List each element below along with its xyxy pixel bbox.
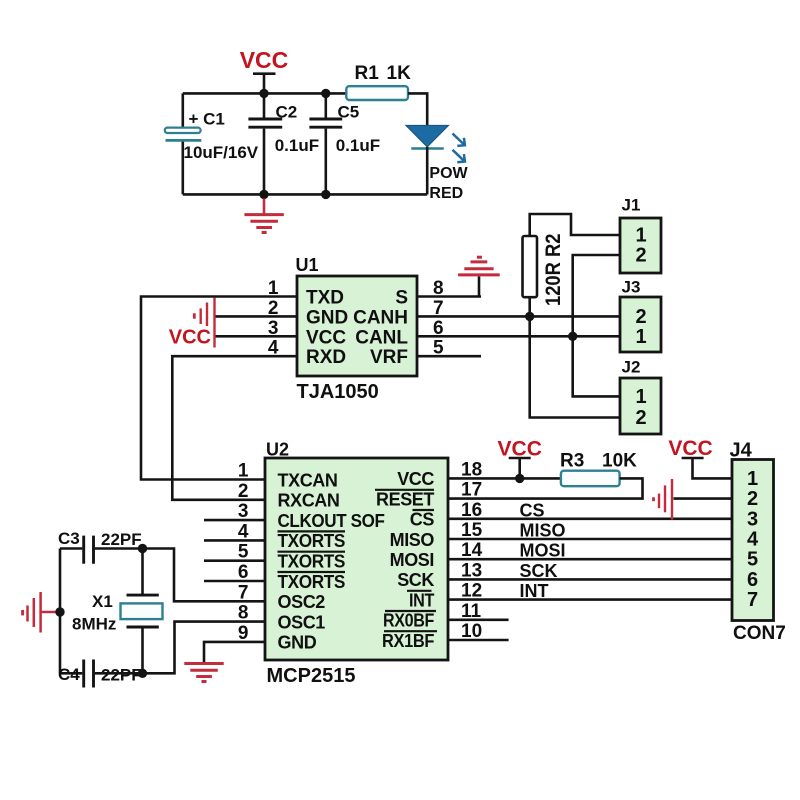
node junction CANH / R2 (525, 312, 534, 321)
wire top rail VCC (183, 92, 346, 95)
svg-text:GND: GND (278, 633, 317, 653)
svg-text:1K: 1K (387, 63, 412, 84)
svg-text:R1: R1 (355, 63, 380, 84)
wire MISO net U2 pin15 to J4 pin4 (448, 538, 732, 541)
capacitor C1 bottom plate (166, 139, 202, 142)
svg-text:CANH: CANH (353, 307, 408, 328)
power VCC top symbol (240, 47, 289, 93)
svg-text:VCC: VCC (306, 327, 346, 348)
resistor R3 (560, 451, 637, 487)
node junction bottom rail / C5 (321, 190, 330, 199)
resistor R2 (523, 236, 538, 297)
capacitor C1 top plate (165, 128, 201, 133)
svg-text:1: 1 (635, 386, 646, 408)
svg-text:MCP2515: MCP2515 (267, 665, 356, 687)
U2 pin names left (278, 470, 385, 652)
connector J4 CON7 (732, 460, 774, 621)
svg-text:C2: C2 (276, 103, 298, 122)
svg-text:0.1uF: 0.1uF (336, 136, 380, 155)
wire U2 pin4 stub (204, 539, 265, 542)
wire C4 right plate to OSC1 vertical (95, 622, 265, 674)
node junction bottom rail / C2 gnd (259, 190, 268, 199)
svg-text:CS: CS (410, 510, 435, 530)
svg-text:3: 3 (238, 501, 249, 522)
svg-text:VRF: VRF (370, 347, 408, 368)
wire left rail (C1 branch lower) (182, 140, 185, 194)
LED arrow 2 (453, 150, 465, 162)
wire U1 pin8 S to ground (417, 277, 481, 297)
wire C3 node top: rail to C3 left plate (60, 547, 82, 550)
svg-text:RXD: RXD (306, 347, 346, 368)
LED D1 cathode bar (411, 147, 444, 150)
U2 pin numbers left (238, 461, 249, 644)
svg-text:22PF: 22PF (101, 530, 142, 549)
wire R3 to U2 pin17 RESET (448, 478, 643, 498)
svg-text:INT: INT (520, 581, 549, 601)
svg-text:MISO: MISO (390, 530, 435, 550)
svg-text:+ C1: + C1 (189, 110, 225, 129)
resistor R1 (346, 63, 411, 100)
LED arrow 1 (453, 134, 465, 146)
svg-text:CANL: CANL (355, 327, 408, 348)
wire U1 pin2 GND (215, 315, 297, 318)
wire U2 pin11 stub (448, 618, 509, 621)
chip U2 box MCP2515 (265, 458, 448, 660)
wire U1 pin1 TXD to U2 pin1 (141, 297, 297, 480)
wire INT net U2 pin12 to J4 pin7 (448, 598, 732, 601)
wire U1 pin5 VRF stub (417, 355, 481, 358)
svg-text:TXORTS: TXORTS (278, 552, 346, 572)
wire U1 pin4 RXD to U2 pin2 (172, 356, 297, 500)
wire bottom rail GND (183, 193, 427, 196)
wire U2 pin6 stub (204, 580, 265, 583)
svg-text:1: 1 (635, 326, 646, 348)
wire CANH net U1 pin7 to J3 pin2 (417, 315, 620, 318)
node junction pin18 / VCC (515, 474, 524, 483)
svg-text:10uF/16V: 10uF/16V (184, 143, 259, 162)
svg-text:TJA1050: TJA1050 (297, 381, 379, 403)
wire left rail (C1 branch upper) (182, 93, 185, 127)
svg-text:VCC: VCC (668, 437, 712, 460)
wire U2 pin5 stub (204, 559, 265, 562)
wire crystal top lead (141, 549, 144, 596)
svg-text:120R R2: 120R R2 (541, 233, 565, 306)
wire C3 right plate to OSC2 vertical (95, 549, 265, 602)
wire CS net U2 pin16 to J4 pin3 (448, 517, 732, 520)
wire R2 top to J1 pin1 (530, 214, 620, 236)
svg-text:4: 4 (238, 521, 249, 542)
svg-text:C3: C3 (58, 529, 80, 548)
svg-text:MOSI: MOSI (390, 550, 434, 570)
svg-text:7: 7 (433, 298, 444, 319)
svg-text:2: 2 (238, 481, 249, 502)
wire left rail crystal (59, 549, 62, 674)
svg-text:RED: RED (429, 185, 463, 202)
U1 pin names left (306, 288, 348, 369)
node junction C3 / crystal top (138, 544, 147, 553)
svg-text:SCK: SCK (397, 570, 434, 590)
wire J1 pin2 down through CANL to J2 pin1 (573, 255, 620, 396)
svg-text:5: 5 (433, 338, 444, 359)
svg-text:5: 5 (238, 542, 249, 563)
svg-text:C5: C5 (338, 103, 360, 122)
connector J3 (620, 297, 661, 352)
connector J2 (620, 378, 661, 434)
svg-text:6: 6 (433, 318, 444, 339)
ground sideways symbol at crystal rail (23, 592, 58, 633)
svg-text:MISO: MISO (520, 521, 566, 541)
svg-text:4: 4 (747, 529, 759, 551)
svg-text:3: 3 (268, 318, 279, 339)
wire U2 pin18 VCC to R3 (448, 477, 561, 480)
svg-text:TXORTS: TXORTS (278, 531, 346, 551)
wire R2 bottom through CANH down to J2 pin2 (530, 297, 620, 417)
U1 pin numbers right (433, 278, 444, 359)
svg-text:8: 8 (433, 278, 444, 299)
wire MOSI net U2 pin14 to J4 pin5 (448, 558, 732, 561)
node junction C4 / crystal bottom (138, 669, 147, 678)
wire LED to bottom rail (426, 147, 429, 195)
svg-text:VCC: VCC (169, 327, 211, 349)
net labels SPI (520, 500, 566, 601)
svg-text:2: 2 (747, 488, 758, 510)
svg-text:1: 1 (238, 461, 249, 482)
J4 pin numbers (747, 468, 759, 611)
U2 pin numbers right (461, 459, 483, 642)
svg-text:2: 2 (635, 245, 646, 267)
svg-text:TXORTS: TXORTS (278, 572, 346, 592)
ground below filter bank (244, 199, 283, 233)
node junction top rail / C2 (259, 89, 268, 98)
crystal X1 top plate (127, 594, 159, 597)
svg-text:1: 1 (747, 468, 758, 490)
svg-text:POW: POW (429, 165, 468, 182)
ground at U2 pin9 (184, 664, 223, 682)
svg-text:0.1uF: 0.1uF (275, 136, 319, 155)
svg-text:4: 4 (268, 338, 279, 359)
svg-text:2: 2 (268, 298, 279, 319)
svg-text:S: S (395, 288, 408, 309)
svg-text:1: 1 (635, 225, 646, 247)
svg-text:5: 5 (747, 549, 758, 571)
svg-text:J3: J3 (622, 278, 641, 297)
svg-text:CLKOUT SOF: CLKOUT SOF (278, 511, 385, 531)
svg-text:6: 6 (238, 562, 249, 583)
wire U2 pin3 CLKOUT stub (204, 519, 265, 522)
svg-text:1: 1 (268, 278, 279, 299)
svg-text:RX1BF: RX1BF (382, 631, 434, 651)
svg-text:X1: X1 (92, 592, 113, 611)
wire R1 right lead to LED (408, 93, 427, 125)
svg-text:J4: J4 (730, 440, 753, 462)
svg-text:INT: INT (409, 590, 434, 610)
svg-text:C4: C4 (58, 665, 80, 684)
svg-text:OSC2: OSC2 (278, 592, 326, 612)
svg-text:8MHz: 8MHz (72, 615, 116, 634)
LED D1 triangle (406, 125, 449, 146)
svg-text:J1: J1 (622, 196, 641, 215)
U2 pin names right (376, 469, 434, 651)
svg-text:TXD: TXD (306, 288, 344, 309)
svg-text:3: 3 (747, 508, 758, 530)
svg-text:GND: GND (306, 307, 348, 328)
svg-text:U1: U1 (296, 255, 319, 275)
wire CANL net U1 pin6 to J3 pin1 (417, 335, 620, 338)
svg-text:VCC: VCC (240, 47, 289, 73)
node junction crystal rail / gnd (55, 607, 64, 616)
power VCC sideways symbol at U1 (194, 298, 214, 348)
capacitor C4 plates (84, 660, 94, 688)
svg-text:CON7: CON7 (733, 623, 786, 644)
connector J1 (620, 218, 661, 273)
op-amp U1 box TJA1050 (297, 276, 417, 376)
svg-text:OSC1: OSC1 (278, 612, 326, 632)
node junction CANL / J1.2 (568, 332, 577, 341)
svg-text:9: 9 (238, 623, 249, 644)
U2 TXORTS overlines (278, 531, 346, 572)
svg-text:RESET: RESET (376, 489, 434, 509)
svg-text:R3: R3 (560, 451, 584, 472)
svg-text:RXCAN: RXCAN (278, 491, 340, 511)
svg-text:22PF: 22PF (101, 666, 142, 685)
svg-text:7: 7 (747, 589, 758, 611)
svg-text:2: 2 (635, 306, 646, 328)
ground at U1 pin8 (inverted) (458, 257, 500, 275)
wire U1 pin3 VCC (215, 335, 297, 338)
node junction top rail / C5 R1 (321, 89, 330, 98)
svg-text:10K: 10K (602, 451, 637, 472)
wire U2 pin9 GND (204, 642, 265, 662)
crystal X1 bottom plate (127, 626, 159, 629)
svg-text:6: 6 (747, 569, 758, 591)
wire J4 pin2 to ground (674, 497, 733, 500)
wire U2 pin10 stub (448, 639, 509, 642)
power VCC symbol at J4 pin1 (668, 437, 732, 478)
svg-text:2: 2 (635, 407, 646, 429)
wire SCK net U2 pin13 to J4 pin6 (448, 578, 732, 581)
svg-text:CS: CS (520, 500, 545, 520)
svg-text:MOSI: MOSI (520, 541, 566, 561)
svg-text:RX0BF: RX0BF (383, 611, 434, 631)
svg-text:J2: J2 (622, 358, 641, 377)
crystal X1 body (121, 603, 163, 619)
svg-text:VCC: VCC (397, 469, 434, 489)
svg-text:U2: U2 (266, 440, 289, 460)
svg-text:TXCAN: TXCAN (278, 470, 338, 490)
svg-text:SCK: SCK (520, 561, 558, 581)
capacitor C3 plates (84, 536, 94, 564)
capacitor C2 (248, 93, 319, 194)
ground sideways symbol at J4 pin2 (654, 479, 673, 520)
capacitor C5 (309, 93, 380, 194)
wire crystal bottom lead (141, 627, 144, 673)
U1 pin names right (353, 288, 408, 369)
U1 pin numbers left (268, 278, 279, 359)
U2 right label overlines (375, 490, 437, 631)
power VCC symbol at R3 (498, 438, 542, 479)
wire C4 node bottom: rail to C4 left plate (60, 672, 82, 675)
